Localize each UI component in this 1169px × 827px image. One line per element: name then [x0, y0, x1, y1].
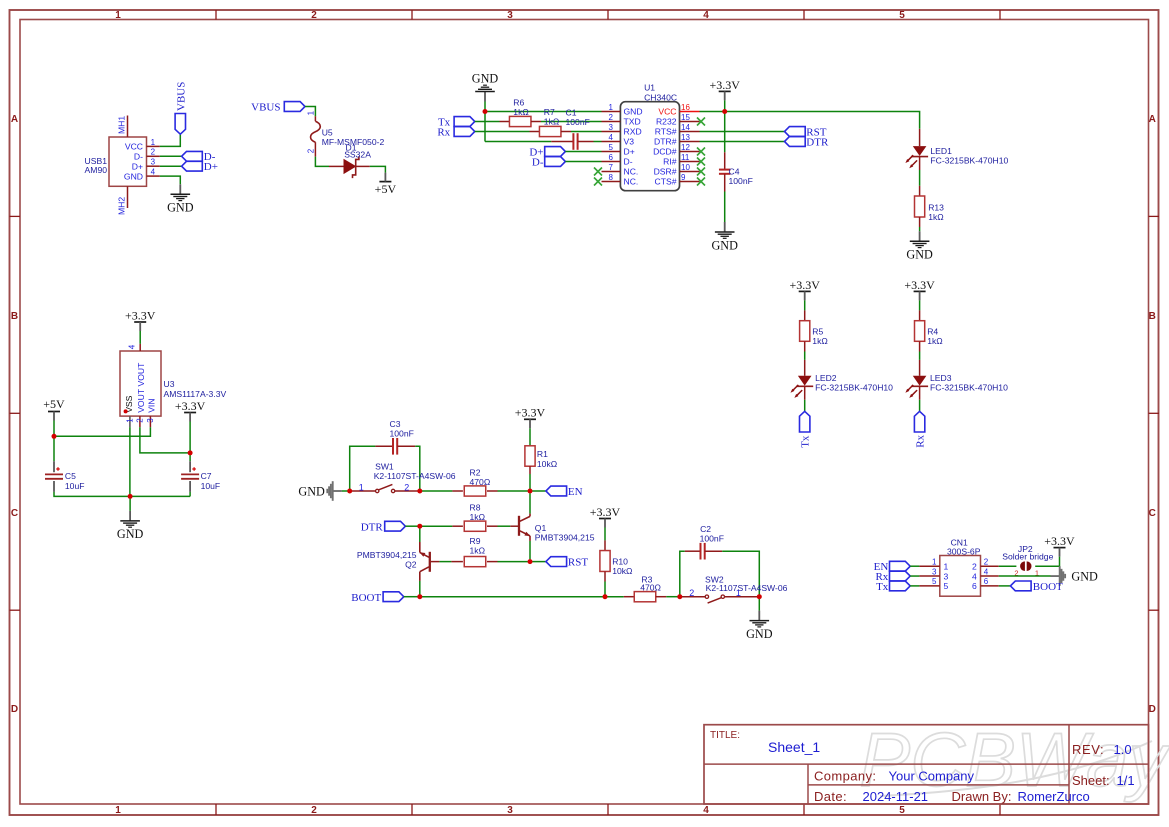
svg-text:CTS#: CTS# — [655, 177, 677, 187]
wire BOOT rail — [420, 596, 603, 598]
svg-text:100nF: 100nF — [700, 533, 724, 543]
no-connect pin15 — [697, 118, 705, 126]
svg-text:Tx: Tx — [800, 435, 812, 448]
svg-text:D-: D- — [624, 157, 633, 167]
diode D1 SS32A — [329, 142, 371, 178]
net flag EN — [874, 561, 911, 573]
svg-text:SW1: SW1 — [375, 462, 394, 472]
wire C1 to pin4 — [594, 141, 602, 143]
svg-text:DTR#: DTR# — [654, 137, 677, 147]
svg-text:C: C — [1149, 508, 1156, 519]
wire D- pin2 — [160, 155, 182, 157]
svg-text:3: 3 — [609, 123, 614, 132]
svg-text:VBUS: VBUS — [175, 82, 187, 111]
wire ground to SW1 — [342, 490, 350, 492]
junction — [757, 594, 762, 599]
svg-text:B: B — [11, 311, 18, 322]
wire D+ to pin5 — [565, 151, 601, 153]
wire LED1 to R13 — [919, 170, 921, 186]
svg-text:1kΩ: 1kΩ — [470, 546, 486, 556]
wire to ground — [129, 496, 131, 511]
svg-text:1: 1 — [151, 138, 156, 147]
svg-text:5: 5 — [899, 805, 905, 816]
svg-text:2: 2 — [311, 805, 317, 816]
wire +3.3V down to C7 — [189, 422, 191, 462]
net flag VBUS — [251, 102, 305, 114]
capacitor C5 10uF — [45, 436, 84, 492]
svg-text:6: 6 — [609, 153, 614, 162]
wire Q1 collector — [529, 493, 531, 513]
svg-text:SS32A: SS32A — [344, 150, 371, 160]
wire VOUT to +3.3V net — [140, 427, 190, 453]
svg-text:10uF: 10uF — [201, 481, 221, 491]
svg-text:100nF: 100nF — [729, 176, 753, 186]
svg-text:12: 12 — [681, 143, 690, 152]
svg-text:Rx: Rx — [437, 126, 450, 138]
wire DTR# to DTR — [700, 141, 785, 143]
svg-text:GND: GND — [117, 527, 144, 541]
transistor Q2 PMBT3904,215 — [357, 542, 440, 581]
wire flag to CN1 — [910, 585, 919, 587]
svg-text:Tx: Tx — [876, 581, 889, 593]
net flag D+ — [529, 146, 565, 158]
svg-text:A: A — [11, 114, 18, 125]
wire C7 to rail — [189, 492, 191, 497]
svg-text:Rx: Rx — [915, 434, 927, 447]
svg-text:RomerZurco: RomerZurco — [1018, 789, 1090, 804]
svg-text:3: 3 — [146, 418, 155, 423]
net flag Rx — [437, 126, 474, 138]
svg-text:4: 4 — [703, 10, 709, 21]
svg-text:2: 2 — [151, 148, 156, 157]
svg-text:R9: R9 — [470, 536, 481, 546]
ground — [117, 511, 144, 541]
wire +3.3V to R4 — [919, 300, 921, 310]
wire DTR to R8 — [420, 525, 453, 527]
wire V3 net — [485, 141, 551, 143]
svg-text:V3: V3 — [624, 137, 635, 147]
wire R4 to LED3 — [919, 352, 921, 360]
wire VCC to VBUS — [160, 134, 181, 146]
svg-text:U1: U1 — [644, 83, 655, 93]
wire R5 to LED2 — [804, 352, 806, 360]
wire +3.3V to R1 — [529, 428, 531, 446]
svg-text:5: 5 — [932, 577, 937, 586]
no-connect pin7 — [594, 168, 602, 176]
svg-text:+5V: +5V — [375, 182, 397, 196]
junction — [347, 489, 352, 494]
svg-text:1: 1 — [359, 483, 364, 493]
svg-text:16: 16 — [681, 103, 690, 112]
power +3.3V — [590, 505, 621, 528]
wire +3.3V to R5 — [804, 300, 806, 310]
svg-text:10: 10 — [681, 163, 690, 172]
no-connect pin10 — [697, 168, 705, 176]
wire GND down to pin1 net — [484, 102, 486, 142]
svg-text:3: 3 — [151, 158, 156, 167]
svg-text:R6: R6 — [513, 97, 524, 107]
svg-text:5: 5 — [944, 581, 949, 591]
svg-text:2: 2 — [404, 483, 409, 493]
svg-text:RST: RST — [568, 557, 588, 569]
wire flag to CN1 — [910, 565, 919, 567]
svg-text:+3.3V: +3.3V — [789, 278, 820, 292]
svg-text:D+: D+ — [132, 161, 143, 171]
wire R10 to BOOT junction — [604, 582, 606, 595]
no-connect pin12 — [697, 148, 705, 156]
svg-text:GND: GND — [298, 484, 325, 498]
junction — [417, 594, 422, 599]
svg-text:2024-11-21: 2024-11-21 — [863, 789, 929, 804]
resistor R13 1k — [915, 186, 945, 227]
svg-text:R4: R4 — [927, 326, 938, 336]
junction — [722, 109, 727, 114]
wire +3.3V to junction — [724, 100, 726, 152]
svg-text:5: 5 — [899, 10, 905, 21]
svg-text:C: C — [11, 508, 18, 519]
svg-text:+3.3V: +3.3V — [175, 399, 206, 413]
wire Q2 collector to BOOT — [419, 581, 421, 595]
junction — [483, 109, 488, 114]
svg-text:C7: C7 — [201, 471, 212, 481]
junction — [417, 524, 422, 529]
svg-text:2: 2 — [689, 588, 694, 598]
wire flag to CN1 — [910, 575, 919, 577]
wire GND pin4 — [160, 176, 181, 184]
no-connect pin9 — [697, 178, 705, 186]
net flag RST — [785, 126, 827, 138]
wire RTS to RST — [700, 131, 785, 133]
svg-text:4: 4 — [972, 571, 977, 581]
svg-text:D+: D+ — [624, 147, 635, 157]
svg-text:GND: GND — [472, 71, 499, 85]
net flag Tx — [438, 116, 475, 128]
net flag D- — [182, 151, 216, 163]
svg-text:100nF: 100nF — [566, 117, 590, 127]
switch SW1 K2-1107ST-A4SW-06 — [352, 462, 456, 493]
wire BOOT to R3 — [605, 596, 624, 598]
svg-text:1: 1 — [115, 805, 121, 816]
capacitor C1 100nF — [551, 107, 593, 150]
svg-text:LED1: LED1 — [930, 146, 952, 156]
junction — [128, 494, 133, 499]
wire fuse to diode — [315, 157, 329, 167]
svg-text:RXD: RXD — [624, 127, 642, 137]
no-connect pin8 — [594, 178, 602, 186]
svg-text:2: 2 — [972, 561, 977, 571]
capacitor C7 10uF — [181, 461, 220, 492]
svg-text:1: 1 — [944, 561, 949, 571]
svg-text:LED3: LED3 — [930, 373, 952, 383]
svg-text:LED2: LED2 — [815, 373, 837, 383]
svg-text:K2-1107ST-A4SW-06: K2-1107ST-A4SW-06 — [706, 583, 788, 593]
svg-text:Your Company: Your Company — [889, 769, 975, 784]
svg-text:D-: D- — [134, 152, 143, 162]
svg-text:1: 1 — [609, 103, 614, 112]
wire C2 right leg — [722, 551, 759, 594]
svg-text:2: 2 — [311, 10, 317, 21]
junction — [528, 489, 533, 494]
resistor R2 470 — [452, 467, 497, 496]
svg-text:2: 2 — [136, 418, 145, 423]
svg-text:D: D — [1149, 704, 1156, 715]
resistor R5 1k — [800, 310, 829, 351]
LED LED3 FC-3215BK-470H10 — [905, 360, 1008, 400]
svg-text:C5: C5 — [65, 471, 76, 481]
junction — [188, 450, 193, 455]
svg-text:3: 3 — [944, 571, 949, 581]
svg-text:U3: U3 — [164, 379, 175, 389]
IC U1 CH340C — [602, 83, 700, 191]
net flag D- — [532, 156, 566, 168]
svg-text:7: 7 — [609, 163, 614, 172]
svg-text:2: 2 — [984, 558, 989, 567]
wire Rx to R7 — [475, 131, 530, 133]
switch SW2 K2-1107ST-A4SW-06 — [682, 575, 788, 603]
wire R1 to EN junction — [529, 474, 531, 489]
svg-text:GND: GND — [746, 627, 773, 641]
resistor R7 1k — [530, 107, 572, 136]
svg-text:R10: R10 — [612, 556, 628, 566]
wire DTR to junction — [405, 525, 417, 527]
power +3.3V — [515, 406, 546, 429]
svg-text:+3.3V: +3.3V — [515, 406, 546, 420]
svg-text:CH340C: CH340C — [644, 92, 677, 102]
wire DTR junction to Q2 emitter — [419, 526, 421, 542]
svg-text:MH2: MH2 — [117, 197, 127, 215]
power +3.3V — [789, 278, 820, 301]
net flag Tx — [800, 411, 812, 448]
ground — [906, 231, 933, 261]
resistor R8 1k — [452, 503, 497, 532]
svg-text:470Ω: 470Ω — [640, 583, 661, 593]
svg-text:C3: C3 — [390, 419, 401, 429]
svg-text:1: 1 — [307, 110, 316, 115]
svg-text:DCD#: DCD# — [653, 147, 677, 157]
svg-text:+3.3V: +3.3V — [709, 78, 740, 92]
svg-text:10kΩ: 10kΩ — [612, 566, 633, 576]
wire R6 to pin2 — [541, 121, 602, 123]
svg-text:2: 2 — [609, 113, 614, 122]
svg-text:100nF: 100nF — [390, 429, 414, 439]
wire VSS to ground rail — [129, 427, 131, 496]
svg-text:GND: GND — [167, 201, 194, 215]
svg-text:1/1: 1/1 — [1117, 773, 1135, 788]
svg-text:PMBT3904,215: PMBT3904,215 — [535, 532, 595, 542]
wire diode to +5V — [370, 166, 386, 172]
wire R3 to junction — [666, 596, 677, 598]
resistor R9 1k — [451, 536, 497, 567]
no-connect pin11 — [697, 158, 705, 166]
svg-text:1: 1 — [115, 10, 121, 21]
wire VCC rail — [700, 112, 920, 129]
svg-text:9: 9 — [681, 173, 686, 182]
svg-text:VCC: VCC — [125, 142, 143, 152]
resistor R6 1k — [500, 97, 542, 126]
svg-text:R8: R8 — [470, 503, 481, 513]
svg-text:8: 8 — [609, 173, 614, 182]
wire ground rail — [54, 492, 190, 497]
svg-text:Company:: Company: — [814, 769, 876, 784]
svg-text:4: 4 — [984, 567, 989, 576]
power +5V — [43, 397, 65, 421]
svg-text:RI#: RI# — [663, 157, 677, 167]
power +3.3V — [175, 399, 206, 422]
svg-text:A: A — [1149, 114, 1156, 125]
capacitor C4 100nF — [719, 152, 753, 191]
power +5V — [375, 173, 397, 197]
svg-text:D-: D- — [532, 156, 544, 168]
svg-text:C2: C2 — [700, 524, 711, 534]
svg-text:GND: GND — [124, 171, 143, 181]
LED LED1 FC-3215BK-470H10 — [905, 129, 1008, 170]
junction — [677, 594, 682, 599]
regulator U3 AMS1117A-3.3V — [120, 344, 227, 427]
wire pin2 to JP2 — [999, 565, 1017, 567]
connector USB1 AM90 — [85, 116, 160, 216]
wire pin4 to ground — [999, 575, 1051, 577]
svg-text:DSR#: DSR# — [654, 167, 677, 177]
svg-text:3: 3 — [507, 10, 513, 21]
junction — [52, 434, 57, 439]
svg-text:+5V: +5V — [43, 397, 65, 411]
wire R9 to RST junction — [498, 561, 528, 563]
svg-text:U5: U5 — [322, 127, 333, 137]
svg-text:+3.3V: +3.3V — [125, 308, 156, 322]
svg-text:R5: R5 — [812, 326, 823, 336]
wire SW1 to R2 — [420, 490, 453, 492]
svg-text:3: 3 — [507, 805, 513, 816]
transistor Q1 PMBT3904,215 — [510, 514, 594, 543]
svg-text:R7: R7 — [544, 107, 555, 117]
svg-text:1: 1 — [932, 558, 937, 567]
svg-text:Sheet:: Sheet: — [1072, 773, 1110, 788]
svg-text:470Ω: 470Ω — [470, 477, 491, 487]
svg-text:R232: R232 — [656, 117, 677, 127]
svg-text:K2-1107ST-A4SW-06: K2-1107ST-A4SW-06 — [374, 471, 456, 481]
ground — [298, 481, 342, 501]
wire LED3 to flag — [919, 400, 921, 412]
svg-text:Solder bridge: Solder bridge — [1002, 551, 1053, 561]
connector CN1 300S-6P — [919, 537, 998, 596]
svg-text:1kΩ: 1kΩ — [544, 117, 560, 127]
svg-text:TXD: TXD — [624, 117, 641, 127]
svg-text:15: 15 — [681, 113, 690, 122]
svg-text:1kΩ: 1kΩ — [812, 336, 828, 346]
svg-text:GND: GND — [711, 238, 738, 252]
svg-text:6: 6 — [972, 581, 977, 591]
power +3.3V — [1044, 534, 1075, 557]
wire C3 left leg — [350, 446, 376, 491]
svg-text:14: 14 — [681, 123, 690, 132]
wire pin1 GND — [485, 111, 602, 113]
fuse U5 MF-MSMF050-2 — [307, 110, 385, 156]
svg-text:3: 3 — [932, 567, 937, 576]
wire pin6 to BOOT — [999, 585, 1011, 587]
svg-text:Date:: Date: — [814, 789, 847, 804]
svg-text:D: D — [11, 704, 18, 715]
svg-text:+3.3V: +3.3V — [904, 278, 935, 292]
svg-text:300S-6P: 300S-6P — [947, 547, 981, 557]
svg-text:10kΩ: 10kΩ — [537, 459, 558, 469]
resistor R1 10k — [525, 446, 558, 474]
svg-text:C1: C1 — [566, 107, 577, 117]
power +3.3V — [125, 308, 156, 331]
wire Tx to R6 — [475, 121, 500, 123]
svg-text:13: 13 — [681, 133, 690, 142]
svg-text:MH1: MH1 — [117, 116, 127, 134]
svg-text:+3.3V: +3.3V — [590, 505, 621, 519]
svg-text:AM90: AM90 — [85, 165, 108, 175]
LED LED2 FC-3215BK-470H10 — [791, 360, 894, 400]
wire D- to pin6 — [565, 161, 601, 163]
svg-text:VBUS: VBUS — [251, 102, 280, 114]
wire BOOT flag to junction — [404, 596, 418, 598]
power +3.3V — [709, 78, 740, 101]
svg-text:RTS#: RTS# — [655, 127, 677, 137]
svg-text:4: 4 — [703, 805, 709, 816]
wire C2 left leg — [680, 551, 685, 597]
wire Q2 base to R9 — [439, 561, 451, 563]
net flag BOOT — [351, 592, 404, 604]
ground — [167, 184, 194, 214]
net flag EN — [532, 486, 582, 498]
net flag DTR — [361, 521, 406, 533]
svg-text:1.0: 1.0 — [1114, 742, 1132, 757]
svg-text:GND: GND — [906, 248, 933, 262]
svg-text:R2: R2 — [470, 467, 481, 477]
svg-text:VOUT: VOUT — [136, 362, 146, 387]
svg-text:1kΩ: 1kΩ — [928, 212, 944, 222]
svg-text:D+: D+ — [204, 161, 218, 173]
junction — [417, 489, 422, 494]
svg-text:TITLE:: TITLE: — [710, 730, 740, 741]
wire JP2 to +3.3V — [1035, 557, 1059, 567]
svg-text:6: 6 — [984, 577, 989, 586]
wire +3.3V to R10 — [604, 528, 606, 541]
svg-text:EN: EN — [568, 486, 583, 498]
svg-text:Q2: Q2 — [405, 559, 417, 569]
wire LED2 to flag — [804, 400, 806, 412]
svg-text:5: 5 — [609, 143, 614, 152]
svg-text:BOOT: BOOT — [351, 592, 381, 604]
wire C3 right leg — [415, 446, 420, 491]
svg-text:4: 4 — [151, 168, 156, 177]
net flag VBUS — [175, 82, 187, 135]
wire D+ pin3 — [160, 165, 182, 167]
wire +5V rail to VIN — [54, 427, 150, 436]
svg-text:R1: R1 — [537, 449, 548, 459]
net flag RST — [532, 557, 588, 569]
wire +3.3V to pin4 — [139, 331, 141, 344]
wire VBUS to fuse — [305, 107, 315, 117]
svg-text:AMS1117A-3.3V: AMS1117A-3.3V — [164, 389, 227, 399]
svg-text:10uF: 10uF — [65, 481, 85, 491]
junction — [603, 594, 608, 599]
svg-text:GND: GND — [1071, 569, 1098, 583]
svg-text:R13: R13 — [928, 202, 944, 212]
svg-text:Drawn By:: Drawn By: — [952, 789, 1012, 804]
svg-text:DTR: DTR — [361, 521, 384, 533]
svg-text:DTR: DTR — [806, 136, 829, 148]
net flag DTR — [785, 136, 829, 148]
resistor R3 470 — [624, 575, 667, 602]
svg-text:GND: GND — [624, 107, 643, 117]
jumper JP2 solder bridge — [1002, 544, 1053, 577]
svg-text:1kΩ: 1kΩ — [470, 512, 486, 522]
power +3.3V — [904, 278, 935, 301]
svg-text:VOUT: VOUT — [136, 388, 146, 413]
